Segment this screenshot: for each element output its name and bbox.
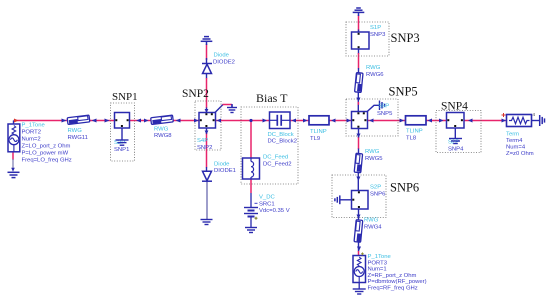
- pin arrows TL9: [303, 119, 308, 123]
- SNP2 dashed box: [195, 101, 221, 150]
- ground Term (rotated right): [540, 115, 545, 126]
- ground top of diode column: [201, 37, 213, 45]
- resistor Term4: [507, 115, 532, 127]
- plus mark PORT3 pin: [361, 252, 364, 255]
- pin arrows RWG8: [144, 119, 149, 123]
- pin arrows SNP1: [105, 119, 110, 123]
- battery plus mark: [255, 217, 258, 220]
- P_1Tone PORT3 source: [353, 256, 366, 283]
- ground SNP4: [449, 128, 462, 144]
- wire PORT2 to ground: [12, 152, 14, 160]
- svg-text:TLINP: TLINP: [310, 129, 327, 135]
- wire SNP2 vertical column lower: [206, 126, 208, 134]
- SNP5 dashed box: [346, 99, 398, 136]
- svg-text:S5P: S5P: [378, 104, 389, 110]
- SNP4 dashed box: [436, 111, 481, 153]
- svg-text:SNP6: SNP6: [390, 181, 419, 195]
- svg-text:Num=1: Num=1: [368, 267, 387, 273]
- svg-text:SRC1: SRC1: [259, 201, 275, 207]
- ground below PORT2: [8, 172, 20, 177]
- svg-text:Vdc=0.35 V: Vdc=0.35 V: [259, 208, 290, 214]
- svg-text:TLINP: TLINP: [406, 129, 423, 135]
- s-parameter block U6 SNP6: [352, 191, 369, 210]
- ground below battery: [245, 228, 257, 233]
- SNP1 dashed box: [111, 103, 135, 161]
- svg-text:SNP5: SNP5: [377, 111, 393, 117]
- wire SNP5 vertical column upper: [358, 15, 360, 31]
- svg-text:Term: Term: [506, 132, 519, 138]
- svg-text:S2P: S2P: [370, 185, 381, 191]
- ground SNP5 ref (rotated): [380, 101, 385, 111]
- svg-text:SNP1: SNP1: [114, 147, 129, 153]
- ground SNP1: [116, 128, 129, 145]
- pin arrow Term: [502, 119, 507, 123]
- svg-text:RWG: RWG: [364, 218, 379, 224]
- svg-text:DIODE2: DIODE2: [213, 59, 235, 65]
- s-parameter block U3 SNP3: [352, 32, 370, 49]
- svg-text:S4P: S4P: [197, 138, 208, 144]
- svg-text:SNP1: SNP1: [112, 91, 138, 103]
- waveguide RWG6: [355, 73, 363, 93]
- plus mark Term: [502, 113, 506, 117]
- svg-text:SNP5: SNP5: [389, 85, 418, 99]
- svg-text:P=LO_power mW: P=LO_power mW: [22, 151, 69, 157]
- wire SNP6 ref stub: [340, 199, 352, 201]
- junction bias tee: [249, 119, 252, 122]
- wire SNP5 ref stub: [365, 105, 379, 113]
- svg-text:P_1Tone: P_1Tone: [22, 123, 46, 129]
- capacitor DC_Block2: [270, 112, 291, 129]
- svg-text:Z=LO_port_z Ohm: Z=LO_port_z Ohm: [22, 144, 71, 150]
- pin arrows RWG11: [62, 119, 67, 123]
- svg-text:RWG11: RWG11: [68, 135, 88, 141]
- svg-text:RWG: RWG: [366, 65, 381, 71]
- svg-text:RWG4: RWG4: [364, 224, 382, 230]
- svg-text:DC_Block2: DC_Block2: [268, 139, 297, 145]
- pin arrow below SNP6 box: [357, 215, 361, 220]
- svg-text:SNP4: SNP4: [448, 146, 464, 152]
- diode DIODE1: [202, 171, 212, 181]
- ground SNP6 ref (rotated left): [335, 195, 340, 204]
- wire SNP2 vertical column upper: [206, 44, 208, 60]
- pin arrow PORT3: [357, 247, 361, 252]
- s-parameter block U1 SNP1: [115, 113, 130, 129]
- svg-text:SNP2: SNP2: [197, 145, 212, 151]
- Bias T dashed box: [241, 107, 298, 184]
- svg-text:Num=2: Num=2: [22, 137, 41, 143]
- svg-text:SNP3: SNP3: [370, 32, 386, 38]
- battery V_DC SRC1: [244, 208, 258, 217]
- ground SNP2 ref: [227, 105, 237, 113]
- svg-text:Num=4: Num=4: [506, 145, 526, 151]
- waveguide RWG5: [354, 153, 362, 173]
- pin arrows DC_Block: [263, 119, 268, 123]
- pin arrow above SNP6 box: [356, 177, 360, 182]
- pin arrow above SNP5: [356, 98, 360, 103]
- svg-text:S1P: S1P: [370, 25, 381, 31]
- waveguide RWG4: [354, 220, 363, 243]
- P_1Tone PORT2 source: [8, 124, 20, 152]
- s-parameter block U4 SNP4: [447, 113, 465, 129]
- svg-text:DC_Feed2: DC_Feed2: [263, 161, 292, 167]
- wire bias tee branch: [250, 121, 252, 194]
- pin arrow PORT2 (red): [14, 119, 19, 123]
- svg-text:Diode: Diode: [214, 53, 230, 59]
- svg-text:Bias T: Bias T: [256, 91, 288, 105]
- ground below DIODE1: [201, 220, 213, 225]
- wire SNP5 vertical column lower: [358, 128, 360, 138]
- pin arrows SNP2: [194, 119, 199, 123]
- pin arrow below SNP5 box: [357, 134, 361, 139]
- wire PORT2 top stub: [13, 121, 15, 125]
- ground top of SNP3 column: [353, 8, 365, 16]
- svg-text:P_1Tone: P_1Tone: [368, 254, 392, 260]
- transmission line TL9: [309, 116, 329, 125]
- diode DIODE2: [202, 64, 212, 74]
- svg-text:Freq=RF_freq GHz: Freq=RF_freq GHz: [368, 286, 418, 292]
- svg-text:DIODE1: DIODE1: [214, 168, 236, 174]
- svg-text:RWG: RWG: [68, 128, 83, 134]
- svg-text:SNP2: SNP2: [182, 88, 209, 100]
- SNP3 dashed box: [346, 22, 389, 56]
- svg-text:DC_Feed: DC_Feed: [263, 155, 288, 161]
- svg-text:DC_Block: DC_Block: [268, 132, 294, 138]
- waveguide RWG8: [151, 115, 174, 124]
- svg-text:P=dbmtow(RF_power): P=dbmtow(RF_power): [368, 279, 427, 285]
- s-parameter block U2 SNP2: [199, 113, 216, 129]
- svg-text:PORT3: PORT3: [368, 260, 388, 266]
- svg-text:Term4: Term4: [506, 138, 523, 144]
- svg-text:RWG8: RWG8: [154, 133, 172, 139]
- pin arrows SNP4: [439, 119, 444, 123]
- wire PORT3 to ground: [358, 283, 360, 290]
- svg-text:RWG5: RWG5: [365, 156, 383, 162]
- ground below PORT3: [353, 289, 366, 294]
- transmission line TL8: [406, 116, 427, 125]
- waveguide RWG11: [67, 115, 90, 124]
- svg-text:Freq=LO_freq GHz: Freq=LO_freq GHz: [22, 158, 72, 164]
- svg-text:PORT2: PORT2: [22, 130, 42, 136]
- wire SNP2 ref stub: [214, 105, 223, 114]
- svg-text:SNP6: SNP6: [370, 191, 386, 197]
- svg-text:RWG: RWG: [365, 149, 380, 155]
- pin arrows SNP5: [347, 119, 352, 123]
- svg-text:Z=RF_port_z Ohm: Z=RF_port_z Ohm: [368, 273, 417, 279]
- svg-text:SNP4: SNP4: [441, 101, 468, 113]
- svg-text:TL9: TL9: [310, 136, 320, 142]
- inductor DC_Feed2: [243, 158, 260, 179]
- svg-text:RWG6: RWG6: [366, 72, 384, 78]
- wire main horizontal bus: [14, 120, 507, 122]
- pin arrows TL8: [400, 119, 405, 123]
- SNP6 dashed box: [332, 175, 386, 218]
- svg-text:Z=z0 Ohm: Z=z0 Ohm: [506, 151, 534, 157]
- svg-text:TL8: TL8: [406, 135, 417, 141]
- s-parameter block U5 SNP5: [352, 112, 368, 129]
- svg-text:Diode: Diode: [214, 162, 230, 168]
- svg-text:V_DC: V_DC: [259, 195, 275, 201]
- svg-text:RWG: RWG: [154, 127, 169, 133]
- svg-text:SNP3: SNP3: [391, 31, 420, 45]
- wire Term to ground stub: [532, 120, 540, 122]
